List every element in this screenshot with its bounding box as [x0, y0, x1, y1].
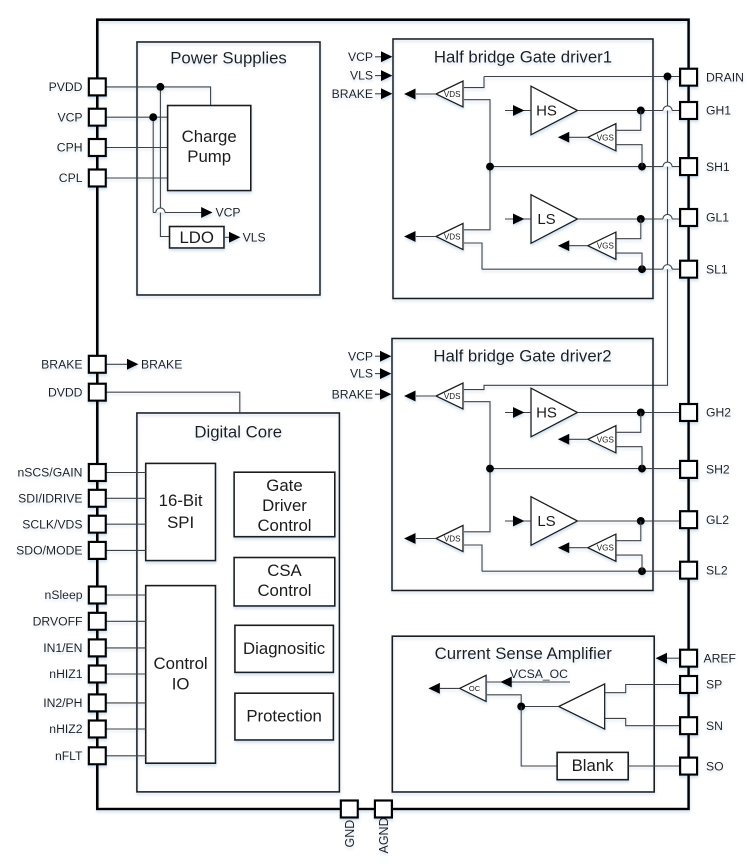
pin nHIZ2 — [89, 721, 106, 738]
pin GL2 — [680, 511, 697, 528]
comparator VDS low-side driver1 — [436, 223, 463, 249]
svg-text:nSleep: nSleep — [45, 588, 83, 602]
arrow LS input driver2 — [505, 520, 531, 522]
arrow AREF into CSA — [667, 657, 681, 659]
wire VGS low bottom input driver1 — [616, 253, 642, 269]
wire SH1 line — [663, 162, 672, 167]
svg-text:AREF: AREF — [704, 651, 737, 665]
wire CPH to charge pump — [106, 147, 169, 149]
junction dot SH1 left — [486, 163, 494, 171]
svg-text:SPI: SPI — [167, 513, 194, 532]
wire Blank to SO — [628, 765, 680, 767]
svg-text:BRAKE: BRAKE — [332, 387, 373, 401]
arrow VDS low out driver2 — [416, 538, 436, 540]
pin DRAIN — [680, 69, 697, 86]
wire GH1 line — [663, 106, 672, 111]
junction dot DRAIN rail — [664, 73, 672, 81]
wire DRVOFF to Control IO — [106, 620, 146, 622]
pin GND — [341, 801, 358, 818]
svg-text:VDS: VDS — [444, 535, 461, 544]
comparator VGS high driver2 — [588, 426, 616, 453]
arrow VCP into driver2 — [375, 355, 383, 357]
pin nHIZ1 — [89, 666, 106, 683]
pin GH1 — [680, 102, 697, 119]
pin DVDD — [89, 384, 106, 401]
wire VGS high bottom input driver1 — [616, 145, 642, 167]
svg-text:nHIZ1: nHIZ1 — [49, 667, 82, 681]
arrow VGS high out driver2 — [569, 438, 588, 440]
pin SH2 — [680, 461, 697, 478]
arrow VGS low out driver1 — [569, 245, 588, 247]
svg-text:GND: GND — [343, 820, 357, 848]
svg-text:BRAKE: BRAKE — [41, 358, 82, 372]
junction dot SL2 — [638, 567, 646, 575]
svg-text:Pump: Pump — [187, 147, 231, 166]
pin SP — [680, 676, 697, 693]
wire VGS low bottom input driver2 — [616, 555, 642, 571]
svg-text:VDS: VDS — [444, 392, 461, 401]
wire VGS low top input driver1 — [616, 219, 641, 239]
chip outer border — [97, 20, 688, 809]
svg-text:SN: SN — [706, 719, 723, 733]
junction dot CSA output — [517, 703, 525, 711]
wire VDS low to SL1 line — [464, 243, 482, 269]
svg-text:DVDD: DVDD — [48, 385, 83, 399]
wire nHIZ2 to Control IO — [106, 728, 146, 730]
junction dot SH2 right — [638, 465, 646, 473]
wire DRAIN sense into VDS U11 — [464, 77, 484, 88]
block Charge Pump — [168, 106, 251, 191]
comparator VGS low driver1 — [588, 232, 616, 259]
svg-text:BRAKE: BRAKE — [141, 357, 182, 371]
svg-text:SO: SO — [706, 759, 724, 773]
svg-text:VCP: VCP — [348, 50, 373, 64]
arrow VLS out of LDO — [224, 236, 230, 238]
wire VDS high to SH rail driver2 — [464, 402, 490, 532]
block Half bridge Gate driver1 — [393, 39, 653, 299]
buffer LS driver2 — [531, 497, 578, 546]
wire CSA output — [521, 706, 559, 708]
block Diagnositic — [235, 625, 334, 672]
wire CSA output to OC comparator — [487, 695, 521, 707]
pin GL1 — [680, 209, 697, 226]
svg-text:CPL: CPL — [59, 171, 83, 185]
arrow BRAKE into driver1 — [375, 93, 383, 95]
pin CPH — [89, 139, 106, 156]
pin CPL — [89, 170, 106, 187]
svg-text:Half bridge Gate driver2: Half bridge Gate driver2 — [433, 347, 611, 366]
svg-text:PVDD: PVDD — [49, 80, 83, 94]
arrow VLS into driver1 — [375, 75, 383, 77]
arrow LS input driver1 — [505, 218, 531, 220]
wire VDS low to SL2 line — [464, 545, 482, 571]
svg-text:nFLT: nFLT — [55, 749, 83, 763]
svg-text:SL1: SL1 — [706, 262, 728, 276]
wire SDO/MODE to SPI — [106, 549, 146, 551]
svg-text:VGS: VGS — [597, 242, 615, 251]
wire SN input — [605, 718, 681, 725]
svg-text:CPH: CPH — [57, 141, 83, 155]
wire GL2 line — [578, 520, 681, 522]
svg-text:Control: Control — [257, 516, 311, 535]
block Half bridge Gate driver2 — [392, 339, 653, 591]
pin AREF — [680, 650, 697, 667]
svg-text:VCP: VCP — [216, 206, 241, 220]
arrow VCP into driver1 — [375, 56, 383, 58]
wire nSCS/GAIN to SPI — [106, 472, 146, 474]
svg-text:Blank: Blank — [572, 756, 615, 775]
svg-text:VGS: VGS — [597, 544, 615, 553]
pin SL1 — [680, 261, 697, 278]
wire VCSA_OC into OC — [487, 681, 570, 683]
arrow VDS low out driver1 — [416, 236, 436, 238]
arrow BRAKE into driver2 — [375, 393, 383, 395]
svg-text:HS: HS — [536, 102, 557, 119]
arrow BRAKE internal — [127, 359, 139, 370]
comparator VDS high-side driver1 — [436, 81, 463, 107]
svg-text:SL2: SL2 — [706, 563, 728, 577]
comparator VDS high-side driver2 — [436, 383, 463, 409]
comparator VDS low-side driver2 — [436, 525, 463, 551]
svg-text:LS: LS — [537, 211, 555, 228]
buffer HS driver1 — [531, 86, 578, 135]
svg-text:GH2: GH2 — [706, 406, 731, 420]
wire SL1 line — [663, 265, 672, 270]
svg-text:BRAKE: BRAKE — [332, 87, 373, 101]
pin SH1 — [680, 158, 697, 175]
block CSA Control — [234, 558, 335, 607]
svg-text:Half bridge Gate driver1: Half bridge Gate driver1 — [434, 48, 612, 67]
pin nFLT — [89, 747, 106, 764]
svg-text:nSCS/GAIN: nSCS/GAIN — [17, 466, 82, 480]
svg-text:VDS: VDS — [444, 90, 461, 99]
svg-text:Gate: Gate — [266, 476, 302, 495]
pin GH2 — [680, 404, 697, 421]
block LDO — [170, 227, 225, 249]
arrow HS input driver2 — [505, 412, 531, 414]
arrow HS input driver1 — [505, 110, 531, 112]
pin DRVOFF — [89, 613, 106, 630]
svg-text:AGND: AGND — [377, 817, 391, 853]
wire VCP rail to VCP arrow — [152, 117, 154, 212]
junction dot GL2 — [637, 517, 645, 525]
pin SO — [680, 758, 697, 775]
junction dot GL1 — [637, 215, 645, 223]
wire to Blank — [521, 707, 557, 767]
block Gate Driver Control — [234, 472, 335, 537]
svg-text:VGS: VGS — [597, 435, 615, 444]
wire nSleep to Control IO — [106, 594, 146, 596]
wire DVDD to digital core — [106, 392, 240, 413]
svg-text:Digital Core: Digital Core — [194, 423, 282, 442]
svg-text:IN2/PH: IN2/PH — [43, 696, 82, 710]
wire VGS low top input driver2 — [616, 521, 641, 541]
block Blank — [557, 752, 628, 779]
svg-text:VLS: VLS — [243, 230, 266, 244]
wire VGS high top input driver1 — [616, 111, 641, 131]
buffer LS driver1 — [531, 195, 578, 244]
svg-text:SP: SP — [706, 678, 722, 692]
svg-text:VGS: VGS — [597, 133, 615, 142]
wire GL1 line — [663, 214, 672, 219]
pin BRAKE — [89, 356, 106, 373]
svg-text:Power Supplies: Power Supplies — [170, 49, 287, 68]
svg-text:GH1: GH1 — [706, 104, 731, 118]
comparator VGS low driver2 — [588, 534, 616, 561]
svg-text:Driver: Driver — [262, 496, 307, 515]
svg-text:Diagnositic: Diagnositic — [243, 639, 325, 658]
op-amp CSA — [559, 684, 605, 729]
arrow VDS high out driver2 — [416, 395, 436, 397]
svg-text:Current Sense Amplifier: Current Sense Amplifier — [435, 644, 613, 663]
block Current Sense Amplifier — [392, 636, 654, 792]
arrow VCP out — [201, 207, 213, 218]
wire PVDD rail to LDO — [160, 87, 169, 237]
wire PVDD to charge pump — [106, 87, 211, 107]
svg-text:Control: Control — [154, 654, 208, 673]
buffer HS driver2 — [531, 388, 578, 437]
junction dot VCP — [149, 113, 157, 121]
junction dot SH2 left — [486, 465, 494, 473]
svg-text:Protection: Protection — [246, 707, 322, 726]
svg-text:16-Bit: 16-Bit — [159, 491, 203, 510]
pin SDO/MODE — [89, 542, 106, 559]
wire BRAKE pin to internal arrow — [106, 363, 128, 365]
svg-text:GL2: GL2 — [706, 513, 729, 527]
arrow VLS into driver2 — [375, 373, 383, 375]
svg-text:HS: HS — [536, 404, 557, 421]
wire SL2 line — [482, 570, 680, 572]
svg-text:VCP: VCP — [348, 349, 373, 363]
svg-text:DRVOFF: DRVOFF — [33, 615, 83, 629]
svg-text:VLS: VLS — [350, 367, 373, 381]
wire VGS high bottom input driver2 — [616, 447, 642, 469]
pin SL2 — [680, 562, 697, 579]
junction dot GH2 — [637, 409, 645, 417]
wire nHIZ1 to Control IO — [106, 673, 146, 675]
svg-text:VLS: VLS — [350, 69, 373, 83]
pin IN1/EN — [89, 639, 106, 656]
comparator VGS high driver1 — [588, 124, 616, 151]
svg-text:VCSA_OC: VCSA_OC — [510, 667, 568, 681]
pin SDI/IDRIVE — [89, 490, 106, 507]
junction dot PVDD — [156, 83, 164, 91]
pin PVDD — [89, 78, 106, 95]
wire SP input — [605, 685, 681, 693]
junction dot SH1 right — [638, 163, 646, 171]
svg-text:LS: LS — [537, 513, 555, 530]
wire VGS high top input driver2 — [616, 413, 641, 433]
pin AGND — [375, 801, 392, 818]
svg-text:SH1: SH1 — [706, 160, 730, 174]
wire CPL to charge pump — [106, 177, 169, 179]
svg-text:Charge: Charge — [182, 127, 237, 146]
block Protection — [235, 693, 334, 740]
arrow VDS high out driver1 — [416, 93, 436, 95]
wire DRAIN rail down to gate driver 2 — [464, 77, 668, 390]
block Control IO — [146, 586, 216, 764]
arrow VGS low out driver2 — [569, 547, 588, 549]
wire SDI/IDRIVE to SPI — [106, 497, 146, 499]
svg-text:SH2: SH2 — [706, 463, 730, 477]
comparator OC — [460, 675, 487, 701]
pin nSleep — [89, 587, 106, 604]
svg-text:Control: Control — [257, 581, 311, 600]
svg-text:IN1/EN: IN1/EN — [43, 641, 82, 655]
wire IN2/PH to Control IO — [106, 702, 146, 704]
junction dot GH1 — [637, 107, 645, 115]
svg-text:VCP: VCP — [57, 110, 82, 124]
arrow OC out — [440, 687, 460, 689]
junction dot SL1 — [638, 265, 646, 273]
svg-text:IO: IO — [172, 675, 190, 694]
arrow VGS high out driver1 — [569, 136, 588, 138]
block Power Supplies — [137, 42, 320, 295]
wire SH2 line — [490, 468, 680, 470]
block Digital Core — [137, 413, 340, 792]
wire VDS high to SH rail driver1 — [464, 100, 490, 230]
svg-text:SDI/IDRIVE: SDI/IDRIVE — [18, 492, 82, 506]
svg-text:SCLK/VDS: SCLK/VDS — [22, 517, 82, 531]
block 16-Bit SPI — [146, 463, 216, 560]
wire GH2 line — [578, 412, 681, 414]
pin VCP — [89, 109, 106, 126]
svg-text:DRAIN: DRAIN — [706, 70, 744, 84]
wire SCLK/VDS to SPI — [106, 523, 146, 525]
pin IN2/PH — [89, 694, 106, 711]
svg-text:nHIZ2: nHIZ2 — [49, 722, 82, 736]
pin nSCS/GAIN — [89, 464, 106, 481]
wire nFLT to Control IO — [106, 755, 146, 757]
svg-text:VDS: VDS — [444, 233, 461, 242]
svg-text:OC: OC — [469, 684, 481, 693]
wire VCP pin to charge pump — [106, 116, 169, 118]
wire IN1/EN to Control IO — [106, 647, 146, 649]
pin SCLK/VDS — [89, 516, 106, 533]
svg-text:SDO/MODE: SDO/MODE — [16, 544, 82, 558]
svg-text:CSA: CSA — [267, 561, 302, 580]
svg-text:LDO: LDO — [179, 228, 214, 247]
svg-text:GL1: GL1 — [706, 211, 729, 225]
pin SN — [680, 717, 697, 734]
